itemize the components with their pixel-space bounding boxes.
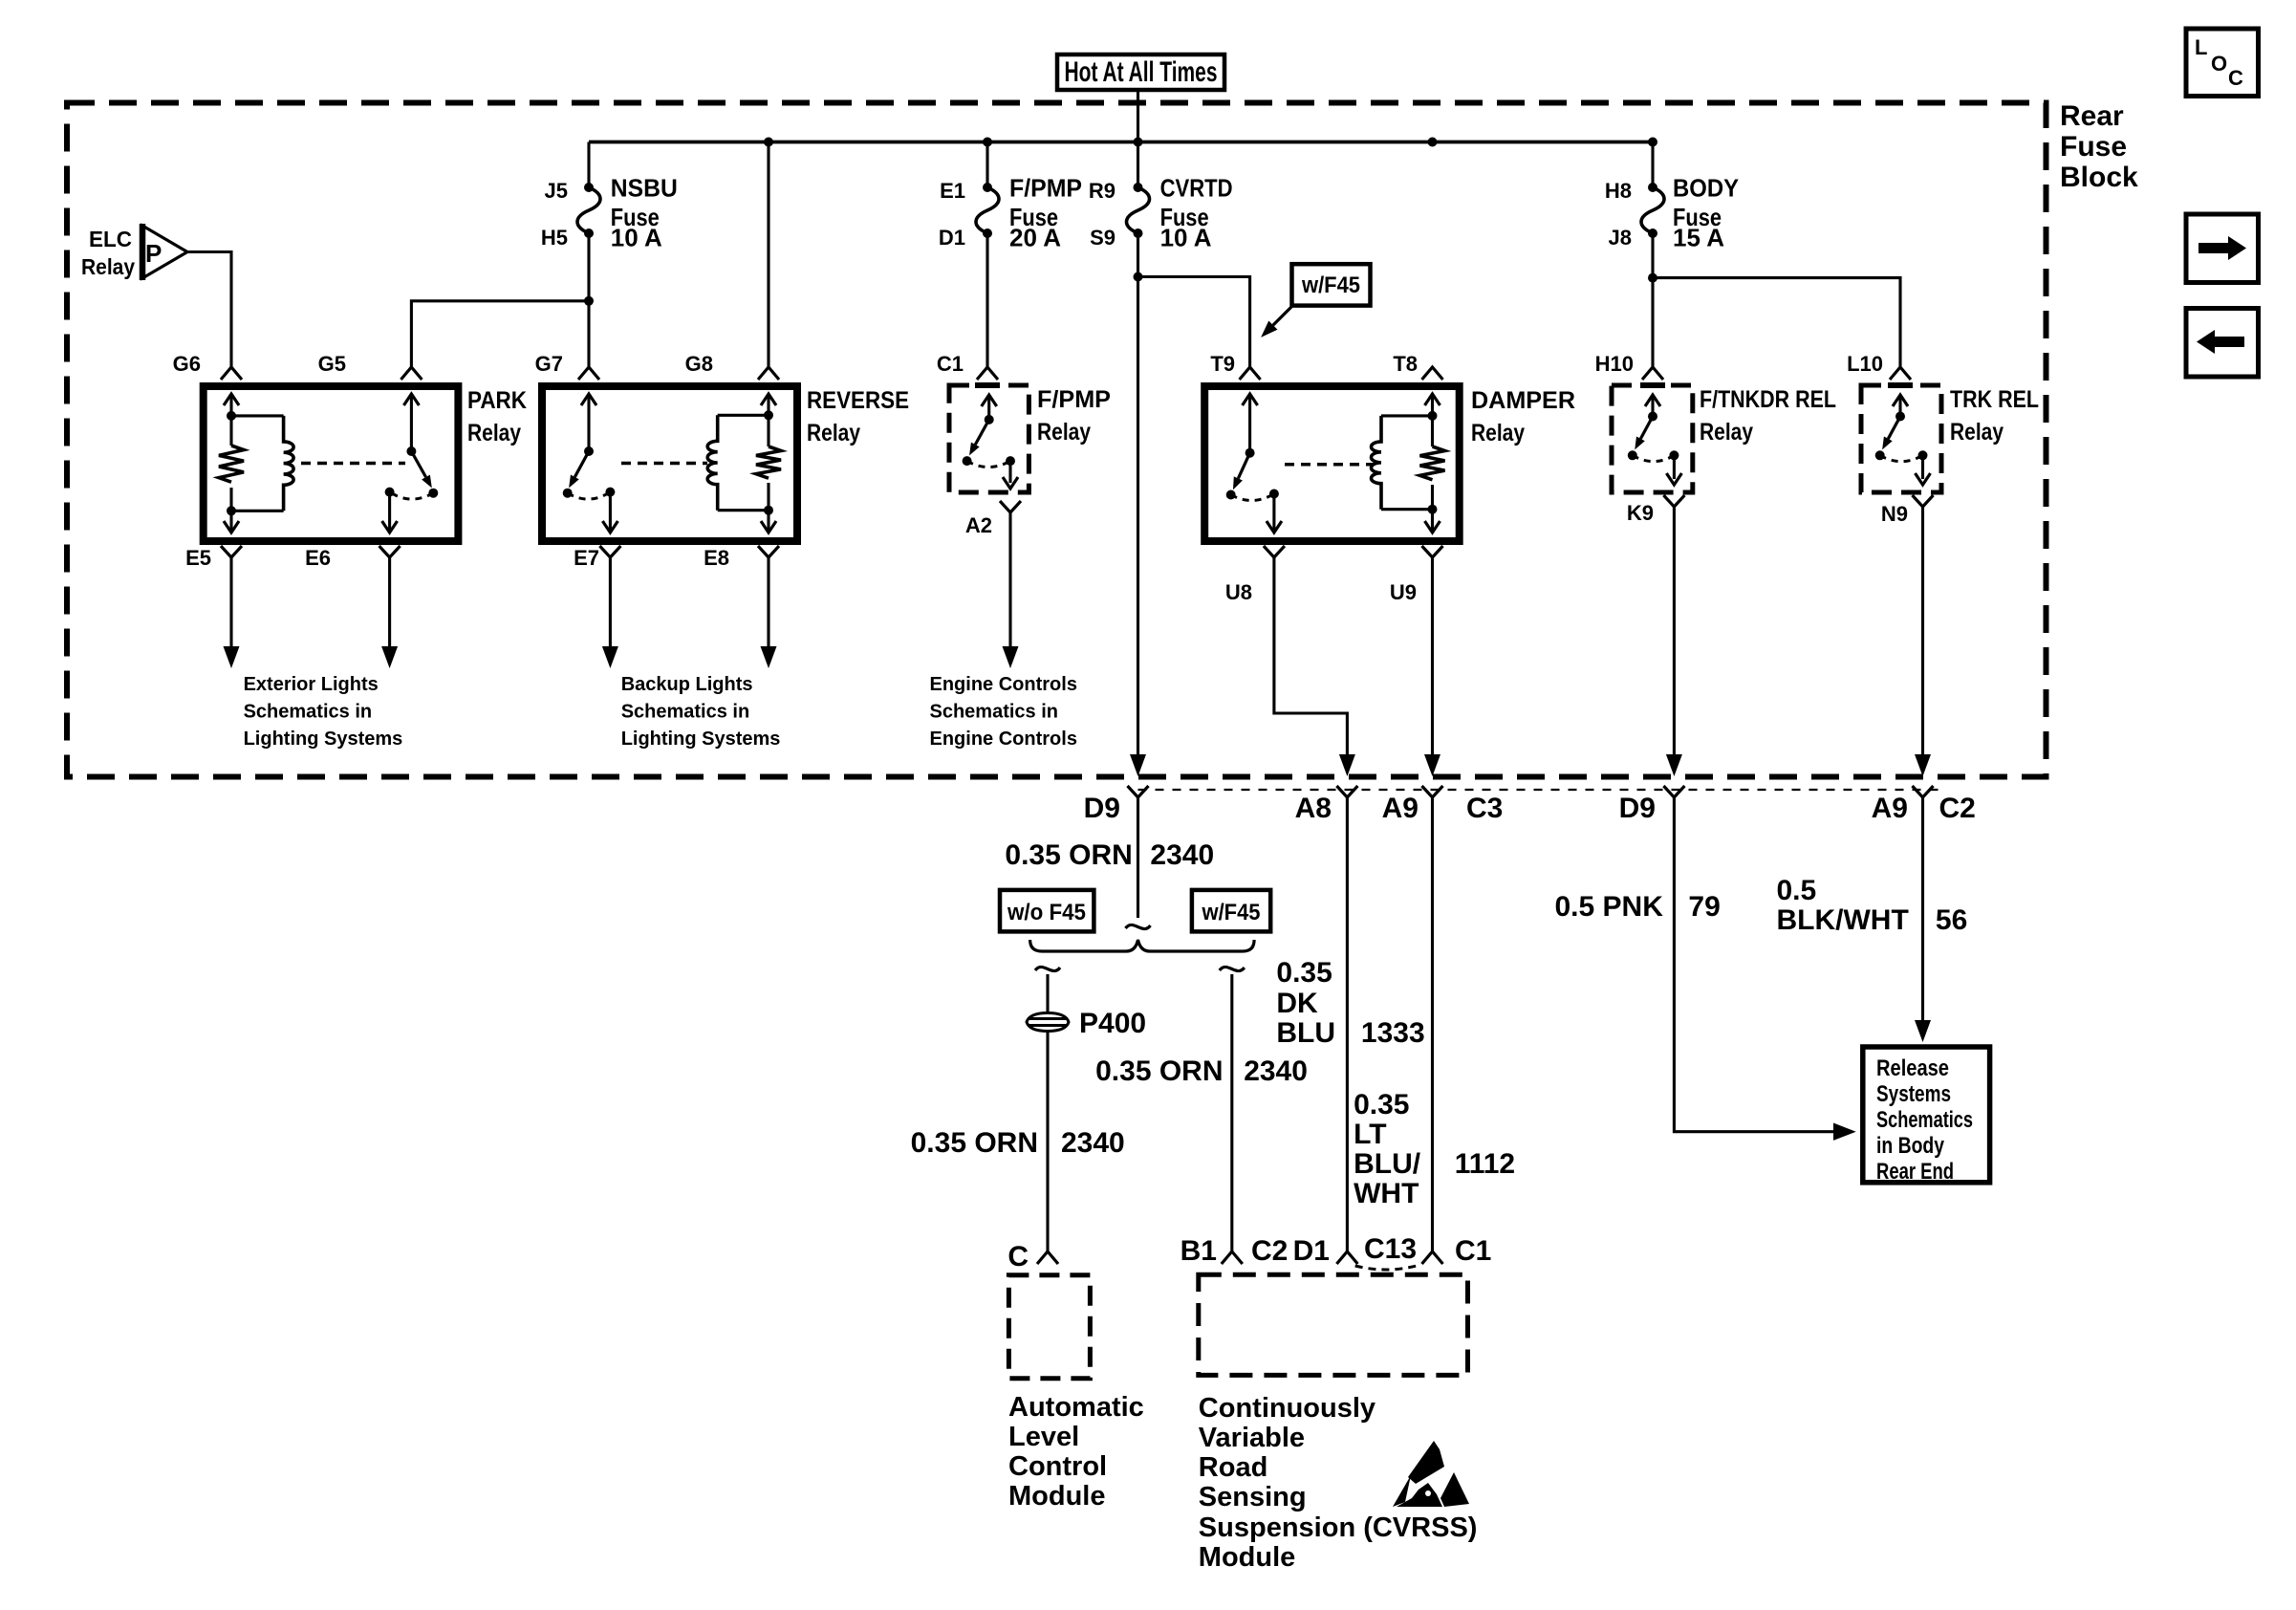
Release Systems Schematics box xyxy=(1863,1047,1990,1183)
wire from Hot At All Times down to bus xyxy=(1137,90,1139,142)
wire BODY fuse to H10 xyxy=(1651,233,1654,367)
F/PMP contact dashed arc xyxy=(967,461,1010,467)
svg-text:E1: E1 xyxy=(940,179,965,203)
svg-text:Lighting Systems: Lighting Systems xyxy=(244,729,403,750)
wire A9 down to CVRSS xyxy=(1431,797,1434,1251)
svg-text:Relay: Relay xyxy=(1950,419,2004,446)
svg-text:0.5 PNK: 0.5 PNK xyxy=(1555,891,1664,923)
svg-text:Rear: Rear xyxy=(2060,100,2124,132)
wire bus down to F/PMP fuse xyxy=(986,142,988,188)
node CVRTD-T9 junction xyxy=(1134,272,1143,282)
TRK REL switch feed arrow xyxy=(1898,397,1901,417)
PARK Relay box xyxy=(204,386,459,541)
NSBU fuse element J5-H5 xyxy=(577,187,600,233)
node bus-G8 xyxy=(764,138,773,147)
pin E5 xyxy=(221,546,242,557)
node DAMPER coil bottom xyxy=(1428,505,1438,514)
svg-text:Relay: Relay xyxy=(807,420,860,446)
DAMPER contact to box bottom xyxy=(1272,494,1275,533)
svg-text:D9: D9 xyxy=(1619,793,1656,824)
svg-text:D9: D9 xyxy=(1084,793,1120,824)
svg-text:Hot At All Times: Hot At All Times xyxy=(1065,56,1218,88)
svg-text:Relay: Relay xyxy=(81,254,135,279)
svg-text:ELC: ELC xyxy=(89,227,132,251)
pin G7 xyxy=(578,367,599,380)
svg-text:Automatic: Automatic xyxy=(1008,1392,1144,1423)
svg-text:Release: Release xyxy=(1876,1055,1949,1081)
wire junction to T9 xyxy=(1138,277,1250,368)
node F/PMP switch pivot xyxy=(985,415,994,424)
svg-text:0.35: 0.35 xyxy=(1276,957,1332,989)
DAMPER relay coil xyxy=(1381,414,1433,417)
pin E6 xyxy=(379,546,401,557)
svg-text:BLU: BLU xyxy=(1276,1017,1335,1049)
TRK REL contact dashed arc xyxy=(1880,455,1923,461)
svg-text:2340: 2340 xyxy=(1061,1127,1125,1159)
node DAMPER switch pivot xyxy=(1245,448,1255,458)
pin D9 center connector xyxy=(1128,786,1149,797)
svg-text:10 A: 10 A xyxy=(611,224,662,252)
wire CVRTD fuse down to D9 connector xyxy=(1137,233,1139,765)
svg-text:D1: D1 xyxy=(1293,1235,1330,1267)
svg-text:G7: G7 xyxy=(535,352,563,376)
pin K9 xyxy=(1663,495,1684,507)
DAMPER Relay box xyxy=(1204,386,1460,541)
F/TNKDR switch blade xyxy=(1640,417,1653,439)
svg-text:Relay: Relay xyxy=(1037,419,1091,446)
svg-text:G5: G5 xyxy=(318,352,346,376)
wire NSBU fuse to G7 xyxy=(587,233,590,367)
pin E8 xyxy=(758,546,779,557)
pin A9 connector xyxy=(1422,786,1443,797)
svg-text:H8: H8 xyxy=(1605,179,1632,203)
PARK mechanical link dashed xyxy=(301,462,405,466)
pin D1/C13 at CVRSS module xyxy=(1336,1251,1357,1264)
pin right A9 connector xyxy=(1913,786,1934,797)
left branch wire to ALC module xyxy=(1046,974,1049,1251)
REVERSE contact dashed arc xyxy=(568,492,611,499)
svg-text:Suspension (CVRSS): Suspension (CVRSS) xyxy=(1199,1512,1478,1543)
node REVERSE switch pivot xyxy=(584,446,594,456)
wire E7 to Backup Lights xyxy=(609,557,612,647)
svg-text:H5: H5 xyxy=(541,226,568,250)
node TRK REL moving contact xyxy=(1875,450,1885,460)
node F/TNKDR switch pivot xyxy=(1648,412,1657,422)
ESD sensitive device symbol xyxy=(1393,1441,1469,1507)
Automatic Level Control Module dashed box xyxy=(1008,1275,1090,1379)
F/PMP contact down arrow xyxy=(1008,461,1011,483)
Continuously Variable Road Sensing Suspension (CVRSS) Module dashed box xyxy=(1199,1274,1468,1375)
wire break squiggle left branch xyxy=(1035,967,1060,970)
right arrow legend box xyxy=(2186,214,2259,283)
w/F45 pointer arrow xyxy=(1273,306,1292,325)
REVERSE Relay box xyxy=(542,386,797,541)
P400 inline connector xyxy=(1027,1013,1069,1032)
svg-text:B1: B1 xyxy=(1180,1235,1217,1267)
svg-text:E6: E6 xyxy=(305,546,331,570)
svg-text:Backup Lights: Backup Lights xyxy=(621,674,753,695)
svg-text:Exterior Lights: Exterior Lights xyxy=(244,674,379,695)
REVERSE switch blade xyxy=(574,451,589,477)
svg-text:L10: L10 xyxy=(1847,352,1883,376)
svg-text:0.35 ORN: 0.35 ORN xyxy=(911,1127,1038,1159)
pin U9 xyxy=(1422,546,1443,557)
F/TNKDR fixed contact bar xyxy=(1640,382,1665,388)
wire E8 to Backup Lights xyxy=(767,557,769,647)
wire PARK resistor to box bottom xyxy=(229,488,232,533)
BODY fuse element H8-J8 xyxy=(1641,187,1664,233)
svg-text:0.35 ORN: 0.35 ORN xyxy=(1095,1055,1223,1087)
REVERSE relay coil xyxy=(718,414,769,417)
REVERSE contact to box bottom xyxy=(609,492,612,533)
wire REVERSE resistor to box bottom xyxy=(767,483,769,533)
svg-text:N9: N9 xyxy=(1881,502,1908,526)
svg-text:L: L xyxy=(2195,35,2207,59)
node REVERSE fixed contact E7 xyxy=(605,488,615,497)
wire DAMPER resistor to box bottom xyxy=(1431,485,1434,533)
main power bus wire xyxy=(589,141,1653,144)
PARK relay coil xyxy=(231,414,284,417)
svg-text:C2: C2 xyxy=(1251,1235,1288,1267)
TRK REL fixed contact bar xyxy=(1888,382,1913,388)
svg-text:TRK REL: TRK REL xyxy=(1950,386,2039,413)
TRK REL contact down arrow xyxy=(1921,455,1924,479)
pin E7 xyxy=(599,546,620,557)
svg-text:NSBU: NSBU xyxy=(611,174,678,203)
wire right D9 to Release Systems box xyxy=(1674,797,1833,1132)
REVERSE switch feed from G7 xyxy=(587,394,590,451)
pin B1 at CVRSS module xyxy=(1222,1251,1243,1264)
arrowhead into bottom border at A9 xyxy=(1424,754,1440,776)
svg-text:A9: A9 xyxy=(1382,793,1419,824)
svg-text:O: O xyxy=(2211,52,2227,76)
node PARK fixed contact E6 xyxy=(385,488,395,497)
svg-text:Road: Road xyxy=(1199,1452,1268,1483)
wire E5 to Exterior Lights xyxy=(229,557,232,647)
svg-text:0.5: 0.5 xyxy=(1777,875,1817,906)
node F/PMP fixed contact A2 xyxy=(1006,456,1015,466)
svg-text:DK: DK xyxy=(1276,988,1318,1019)
svg-text:Module: Module xyxy=(1199,1542,1296,1573)
node DAMPER moving contact xyxy=(1226,490,1236,500)
svg-text:H10: H10 xyxy=(1595,352,1634,376)
wire break squiggle at split xyxy=(1126,925,1151,928)
node DAMPER coil top xyxy=(1428,411,1438,421)
svg-text:2340: 2340 xyxy=(1244,1055,1308,1087)
pin G8 xyxy=(758,367,779,380)
svg-text:1333: 1333 xyxy=(1361,1017,1425,1049)
svg-text:Fuse: Fuse xyxy=(2060,131,2127,163)
svg-text:T8: T8 xyxy=(1393,352,1418,376)
pin C1 xyxy=(977,367,998,380)
svg-text:C13: C13 xyxy=(1364,1233,1417,1265)
pin H10 xyxy=(1642,367,1663,380)
svg-text:REVERSE: REVERSE xyxy=(807,387,909,414)
CVRTD fuse element R9-S9 xyxy=(1127,187,1150,233)
split brace xyxy=(1030,940,1255,951)
Rear Fuse Block dashed boundary xyxy=(67,103,2047,777)
node BODY-L10 junction xyxy=(1648,273,1657,283)
pin right D9 connector xyxy=(1663,786,1684,797)
node PARK coil top xyxy=(227,411,236,421)
svg-text:PARK: PARK xyxy=(467,387,527,414)
node bus-T8 xyxy=(1428,138,1438,147)
svg-text:C3: C3 xyxy=(1466,793,1503,824)
svg-text:D1: D1 xyxy=(939,226,965,250)
node PARK coil bottom xyxy=(227,506,236,515)
svg-text:Module: Module xyxy=(1008,1481,1106,1512)
DAMPER coil branch vertical (pin T8 side) xyxy=(1431,394,1434,446)
svg-text:Lighting Systems: Lighting Systems xyxy=(621,729,781,750)
svg-text:1112: 1112 xyxy=(1455,1148,1515,1180)
pin G6 xyxy=(221,367,242,380)
TRK REL Relay dashed box xyxy=(1861,385,1941,492)
node REVERSE coil bottom xyxy=(764,506,773,515)
svg-text:Schematics in: Schematics in xyxy=(244,702,373,723)
node REVERSE coil top xyxy=(764,410,773,420)
arrowhead into bottom border at A8 xyxy=(1339,754,1355,776)
svg-text:15 A: 15 A xyxy=(1673,224,1724,252)
svg-text:LT: LT xyxy=(1354,1119,1386,1150)
F/TNKDR contact dashed arc xyxy=(1633,455,1675,461)
svg-text:0.35: 0.35 xyxy=(1354,1089,1409,1120)
PARK switch blade xyxy=(411,451,425,477)
ELC Relay triangle symbol xyxy=(142,226,187,278)
pin C1 at CVRSS module xyxy=(1422,1251,1443,1264)
svg-text:10 A: 10 A xyxy=(1160,224,1212,252)
PARK coil branch vertical (pin G6 side) xyxy=(229,394,232,446)
svg-text:Variable: Variable xyxy=(1199,1423,1305,1453)
wire N9 to A9 connector xyxy=(1921,507,1924,765)
svg-text:G8: G8 xyxy=(685,352,713,376)
node TRK REL switch pivot xyxy=(1895,412,1905,422)
wire K9 to D9 connector xyxy=(1673,507,1676,765)
svg-text:BLU/: BLU/ xyxy=(1354,1148,1421,1180)
wire D9 down to split xyxy=(1137,797,1139,918)
DAMPER switch feed from T9 xyxy=(1248,394,1251,453)
DAMPER mechanical link dashed xyxy=(1285,463,1374,467)
F/TNKDR contact down arrow xyxy=(1673,455,1676,479)
svg-text:E8: E8 xyxy=(704,546,729,570)
svg-text:Sensing: Sensing xyxy=(1199,1482,1307,1512)
svg-text:w/F45: w/F45 xyxy=(1202,900,1261,925)
svg-text:Level: Level xyxy=(1008,1422,1079,1452)
wire junction to G5 xyxy=(411,301,589,367)
pin T9 xyxy=(1240,367,1261,380)
svg-text:K9: K9 xyxy=(1627,501,1654,525)
svg-text:J5: J5 xyxy=(545,179,568,203)
wire ELC to G6 xyxy=(187,252,231,368)
connector dashed line below border xyxy=(1138,789,1947,791)
svg-text:T9: T9 xyxy=(1210,352,1235,376)
node NSBU-G5 junction xyxy=(584,296,594,306)
arrowhead into bottom border at right A9 xyxy=(1915,754,1931,776)
pin C at ALC module xyxy=(1037,1251,1058,1264)
wire bus down to NSBU fuse xyxy=(587,142,590,188)
svg-text:F/TNKDR REL: F/TNKDR REL xyxy=(1700,386,1836,413)
svg-text:20 A: 20 A xyxy=(1009,224,1061,252)
svg-text:Control: Control xyxy=(1008,1451,1107,1482)
svg-text:C1: C1 xyxy=(937,352,964,376)
wire bus down to G8 xyxy=(767,142,769,368)
wire A2 to Engine Controls xyxy=(1008,512,1011,647)
wire right A9 down arrow to Release box xyxy=(1921,797,1924,1021)
svg-text:Relay: Relay xyxy=(1700,419,1753,446)
REVERSE mechanical link dashed xyxy=(621,462,707,466)
node bus-F/PMP xyxy=(983,138,992,147)
pin N9 xyxy=(1913,495,1934,507)
wire A8 down to CVRSS xyxy=(1346,797,1349,1251)
svg-text:G6: G6 xyxy=(173,352,201,376)
svg-text:P: P xyxy=(145,239,162,268)
PARK relay resistor xyxy=(219,446,244,482)
pin A8 connector xyxy=(1336,786,1357,797)
svg-text:Continuously: Continuously xyxy=(1199,1393,1375,1424)
w/o F45 option box xyxy=(1000,890,1094,932)
REVERSE relay resistor xyxy=(756,446,781,478)
svg-text:E5: E5 xyxy=(185,546,211,570)
TRK REL switch blade xyxy=(1888,417,1900,439)
svg-text:P400: P400 xyxy=(1079,1008,1146,1039)
svg-text:w/o F45: w/o F45 xyxy=(1007,900,1086,925)
node bus-center xyxy=(1134,138,1143,147)
svg-text:C1: C1 xyxy=(1455,1235,1491,1267)
node F/PMP moving contact xyxy=(963,456,972,466)
LOC legend box xyxy=(2186,29,2259,97)
F/PMP fixed contact bar xyxy=(975,382,1000,388)
svg-text:Systems: Systems xyxy=(1876,1081,1951,1107)
node F/TNKDR fixed contact K9 xyxy=(1669,450,1679,460)
DAMPER contact dashed arc xyxy=(1231,494,1274,501)
F/TNKDR REL Relay dashed box xyxy=(1612,385,1693,492)
svg-text:WHT: WHT xyxy=(1354,1178,1419,1209)
svg-text:CVRTD: CVRTD xyxy=(1160,174,1233,203)
node PARK switch pivot xyxy=(406,446,416,456)
wire bus down to BODY fuse xyxy=(1651,142,1654,188)
svg-text:A9: A9 xyxy=(1872,793,1908,824)
svg-text:C: C xyxy=(2228,66,2243,90)
svg-text:C2: C2 xyxy=(1939,793,1976,824)
DAMPER switch blade xyxy=(1238,453,1249,479)
svg-text:Schematics in: Schematics in xyxy=(621,702,750,723)
svg-text:J8: J8 xyxy=(1609,226,1632,250)
svg-text:U9: U9 xyxy=(1390,580,1417,604)
pin T8 xyxy=(1422,367,1443,380)
svg-text:2340: 2340 xyxy=(1150,839,1214,871)
svg-text:E7: E7 xyxy=(574,546,599,570)
node TRK REL fixed contact N9 xyxy=(1918,450,1928,460)
PARK switch feed from G5 xyxy=(410,394,413,451)
PARK contact dashed arc xyxy=(390,492,434,499)
svg-text:BLK/WHT: BLK/WHT xyxy=(1777,904,1909,936)
svg-text:Block: Block xyxy=(2060,162,2138,193)
F/PMP Relay dashed box xyxy=(949,385,1029,492)
svg-text:w/F45: w/F45 xyxy=(1301,272,1360,298)
wire U8 to A8 connector xyxy=(1274,557,1348,765)
svg-text:DAMPER: DAMPER xyxy=(1471,387,1575,414)
arrowhead into bottom border at right D9 xyxy=(1666,754,1682,776)
svg-text:BODY: BODY xyxy=(1673,174,1739,203)
DAMPER relay resistor xyxy=(1420,446,1445,480)
right branch wire to CVRSS module xyxy=(1230,974,1233,1251)
svg-text:Relay: Relay xyxy=(467,420,521,446)
svg-text:79: 79 xyxy=(1688,891,1720,923)
F/PMP switch blade xyxy=(975,420,988,445)
svg-text:in Body: in Body xyxy=(1876,1133,1945,1159)
wire bus down to CVRTD fuse xyxy=(1137,142,1139,188)
arrowhead into bottom border at D9 xyxy=(1130,754,1146,776)
wire U9 to A9 connector xyxy=(1431,557,1434,765)
svg-text:Rear End: Rear End xyxy=(1876,1159,1954,1185)
svg-text:Schematics in: Schematics in xyxy=(930,702,1059,723)
node REVERSE moving contact xyxy=(563,489,573,498)
svg-text:A2: A2 xyxy=(965,513,992,537)
F/TNKDR switch feed arrow xyxy=(1651,397,1654,417)
wire E6 to Exterior Lights xyxy=(388,557,391,647)
svg-text:0.35 ORN: 0.35 ORN xyxy=(1005,839,1132,871)
F/PMP switch feed arrow xyxy=(987,397,990,420)
svg-text:Schematics: Schematics xyxy=(1876,1107,1973,1133)
node DAMPER fixed contact U8 xyxy=(1269,490,1279,499)
node bus-BODY xyxy=(1648,138,1657,147)
svg-text:F/PMP: F/PMP xyxy=(1037,386,1111,413)
pin G5 xyxy=(401,367,422,380)
PARK contact to box bottom xyxy=(388,492,391,533)
svg-text:R9: R9 xyxy=(1089,179,1116,203)
svg-text:U8: U8 xyxy=(1225,580,1252,604)
Hot At All Times label box xyxy=(1057,54,1224,90)
svg-text:Relay: Relay xyxy=(1471,420,1525,446)
w/F45 option box xyxy=(1192,890,1270,932)
svg-text:Engine Controls: Engine Controls xyxy=(930,674,1077,695)
svg-text:F/PMP: F/PMP xyxy=(1009,174,1082,203)
node PARK moving contact xyxy=(428,489,438,498)
node F/TNKDR moving contact xyxy=(1628,450,1637,460)
svg-text:C: C xyxy=(1007,1241,1029,1273)
wire break squiggle right branch xyxy=(1220,967,1245,970)
pin U8 xyxy=(1264,546,1285,557)
svg-text:A8: A8 xyxy=(1295,793,1332,824)
svg-text:S9: S9 xyxy=(1090,226,1116,250)
w/F45 pointer box xyxy=(1292,264,1371,305)
wire F/PMP fuse to C1 xyxy=(986,233,988,367)
pin A2 xyxy=(1000,501,1021,512)
REVERSE coil branch vertical (pin G8 side) xyxy=(767,394,769,446)
svg-text:Engine Controls: Engine Controls xyxy=(930,729,1077,750)
F/PMP fuse element E1-D1 xyxy=(976,187,999,233)
wire junction to L10 xyxy=(1653,278,1900,367)
pin L10 xyxy=(1890,367,1911,380)
left arrow legend box xyxy=(2186,309,2259,378)
svg-text:56: 56 xyxy=(1936,904,1967,936)
